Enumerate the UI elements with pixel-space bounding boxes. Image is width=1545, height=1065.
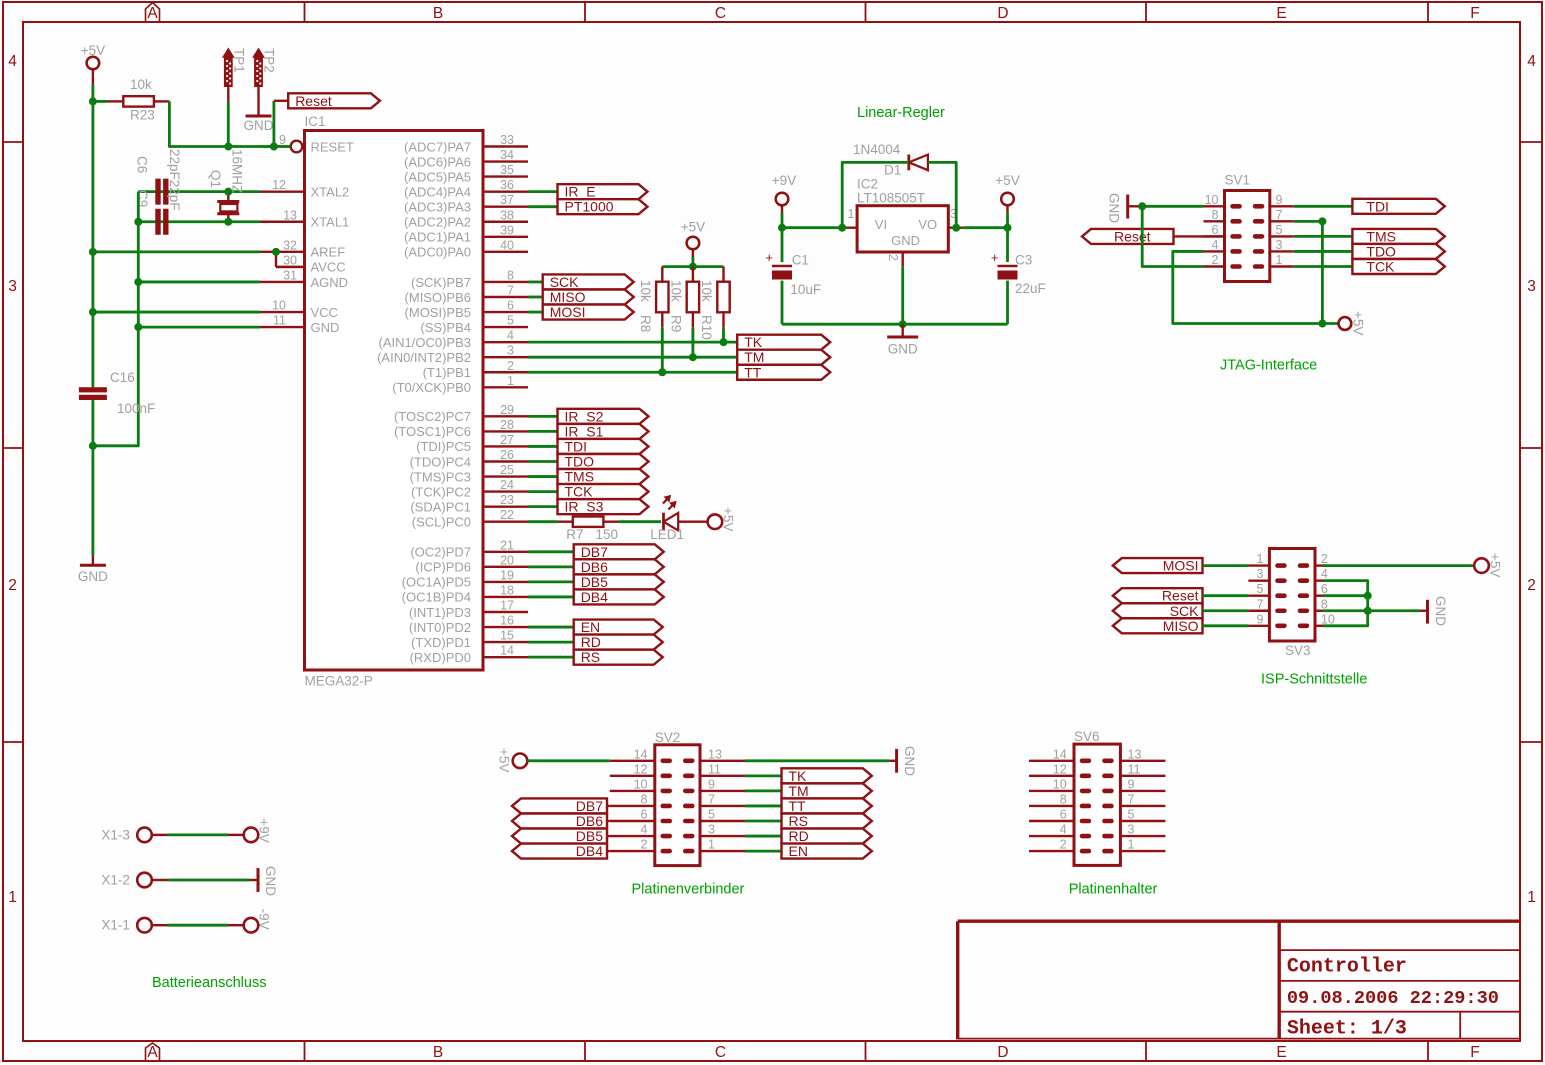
svg-text:18: 18 <box>500 583 514 597</box>
svg-text:1: 1 <box>1276 253 1283 267</box>
node TDI flag <box>1352 198 1444 214</box>
svg-text:B: B <box>433 5 443 22</box>
wire R7 to LED1 <box>619 520 661 523</box>
svg-text:D: D <box>997 1044 1008 1061</box>
svg-text:(INT0)PD2: (INT0)PD2 <box>409 620 471 635</box>
svg-text:11: 11 <box>708 762 721 776</box>
svg-text:4: 4 <box>1212 238 1219 252</box>
power +9V supply <box>772 173 796 213</box>
section label Batterieanschluss <box>152 975 266 991</box>
svg-text:2: 2 <box>507 359 514 373</box>
svg-text:DB7: DB7 <box>576 798 603 814</box>
svg-text:10: 10 <box>1053 777 1067 791</box>
junction TM/R9 <box>689 353 697 361</box>
crystal Q1 16MHz <box>208 149 245 222</box>
svg-text:EN: EN <box>789 843 808 859</box>
svg-text:22uF: 22uF <box>1015 281 1046 296</box>
svg-text:GND: GND <box>244 118 274 133</box>
svg-text:LT108505T: LT108505T <box>857 191 925 206</box>
svg-text:4: 4 <box>8 53 17 70</box>
svg-text:DB4: DB4 <box>576 843 603 859</box>
IC1 pin 27 (TDI)PC5 <box>416 433 528 454</box>
wire SV2 to RS <box>745 820 782 823</box>
svg-text:3: 3 <box>708 823 715 837</box>
junction +5V/R23 <box>89 97 97 105</box>
wire pin 14 to net RS <box>528 656 574 659</box>
wire pin 19 to net DB5 <box>528 580 574 583</box>
wire pin 24 to net TCK <box>528 490 558 493</box>
svg-text:11: 11 <box>1128 762 1141 776</box>
wire SV2 pin13 to gnd <box>745 759 889 762</box>
svg-text:RESET: RESET <box>311 139 354 154</box>
IC1 pin 24 (TCK)PC2 <box>411 478 528 499</box>
svg-text:XTAL2: XTAL2 <box>311 184 350 199</box>
svg-text:GND: GND <box>78 569 108 584</box>
svg-text:ISP-Schnittstelle: ISP-Schnittstelle <box>1261 672 1367 688</box>
SV3 pin row 7/8 <box>1248 597 1328 613</box>
connector SV1 body <box>1225 173 1270 282</box>
wire pin7 to +5V <box>1294 221 1323 323</box>
SV2 pin row 14/13 <box>610 747 745 763</box>
junction Q1/XTAL1 <box>224 218 232 226</box>
svg-text:DB7: DB7 <box>581 544 608 560</box>
node MOSI flag (ISP) <box>1113 558 1203 574</box>
svg-text:3: 3 <box>1527 278 1536 295</box>
wire SV2 to TM <box>745 790 782 793</box>
svg-text:2: 2 <box>1527 577 1536 594</box>
IC1 pin 33 (ADC7)PA7 <box>404 133 528 154</box>
svg-text:9: 9 <box>1128 777 1135 791</box>
svg-text:IR_S1: IR_S1 <box>565 423 604 439</box>
wire LED1 to +5V <box>678 520 707 522</box>
svg-text:2: 2 <box>8 577 17 594</box>
IC1 pin 1 (T0/XCK)PB0 <box>392 374 528 395</box>
svg-text:34: 34 <box>500 148 514 162</box>
svg-text:10k: 10k <box>699 280 714 302</box>
node PT1000 flag <box>558 199 648 215</box>
svg-text:3: 3 <box>8 278 17 295</box>
svg-text:R10: R10 <box>699 315 714 340</box>
svg-text:5: 5 <box>1276 223 1283 237</box>
svg-text:TM: TM <box>789 783 809 799</box>
svg-text:MEGA32-P: MEGA32-P <box>305 674 373 689</box>
IC2 pin VI <box>842 226 857 228</box>
svg-text:JTAG-Interface: JTAG-Interface <box>1220 358 1317 374</box>
IC1 pin 26 (TDO)PC4 <box>410 448 528 469</box>
svg-text:GND: GND <box>888 342 918 357</box>
connector SV6 body <box>1074 729 1120 865</box>
wire to +5V pad <box>1322 322 1338 325</box>
svg-text:TMS: TMS <box>1366 228 1396 244</box>
junction C16 gnd <box>89 442 97 450</box>
svg-text:6: 6 <box>1212 223 1219 237</box>
capacitor C6 22pF <box>135 156 169 205</box>
svg-text:+5V: +5V <box>81 43 105 58</box>
svg-text:C3: C3 <box>1015 252 1032 267</box>
svg-text:+: + <box>991 250 999 265</box>
svg-text:150: 150 <box>596 527 619 542</box>
connector pad X1-2 <box>101 873 151 888</box>
svg-text:B: B <box>433 1044 443 1061</box>
junction D1/VI <box>838 224 846 232</box>
svg-text:40: 40 <box>500 238 514 252</box>
svg-text:20: 20 <box>500 553 514 567</box>
svg-text:(TOSC1)PC6: (TOSC1)PC6 <box>394 424 471 439</box>
svg-text:D: D <box>997 5 1008 22</box>
svg-text:R23: R23 <box>130 108 155 123</box>
IC1 pin 29 (TOSC2)PC7 <box>394 403 528 424</box>
node DB6 flag (SV2) <box>512 813 607 829</box>
svg-text:(AIN0/INT2)PB2: (AIN0/INT2)PB2 <box>377 350 471 365</box>
wire VCC net <box>93 311 260 314</box>
svg-text:(ADC0)PA0: (ADC0)PA0 <box>404 245 471 260</box>
wire X1-1 to -9V <box>152 924 244 926</box>
wire C3 top <box>1006 228 1009 262</box>
wire GND11 net <box>138 326 260 329</box>
svg-text:DB6: DB6 <box>576 813 603 829</box>
svg-text:6: 6 <box>507 299 514 313</box>
SV1 pin row 6/5 <box>1204 223 1294 239</box>
IC1 pin 28 (TOSC1)PC6 <box>394 418 528 439</box>
svg-text:EN: EN <box>581 619 600 635</box>
svg-text:(ADC1)PA1: (ADC1)PA1 <box>404 230 471 245</box>
test point TP1 <box>223 48 246 87</box>
junction AVCC/AREF <box>272 248 280 256</box>
svg-text:5: 5 <box>708 808 715 822</box>
svg-text:E: E <box>1276 1044 1286 1061</box>
IC1 pin 13 XTAL1 <box>260 208 349 229</box>
section label ISP-Schnittstelle <box>1261 672 1367 688</box>
wire AGND net <box>138 281 260 284</box>
wire DB7 to SV2 <box>607 805 610 807</box>
svg-text:30: 30 <box>283 253 297 267</box>
svg-text:17: 17 <box>500 598 514 612</box>
svg-text:TK: TK <box>744 334 763 350</box>
SV1 pin row 2/1 <box>1204 253 1294 269</box>
IC1 pin 22 (SCL)PC0 <box>412 508 528 529</box>
node TM flag <box>737 349 830 365</box>
svg-text:21: 21 <box>500 538 514 552</box>
svg-text:C: C <box>715 5 726 22</box>
wire pin 28 to net IR_S1 <box>528 430 558 433</box>
svg-text:MISO: MISO <box>1163 618 1199 634</box>
svg-text:+5V: +5V <box>721 507 736 531</box>
svg-text:1: 1 <box>1128 838 1135 852</box>
svg-text:2: 2 <box>1060 838 1067 852</box>
svg-text:SV1: SV1 <box>1225 173 1251 188</box>
svg-text:(TXD)PD1: (TXD)PD1 <box>411 635 471 650</box>
svg-text:TCK: TCK <box>1366 259 1395 275</box>
IC1 pin 9 RESET <box>260 133 354 154</box>
connector SV3 body <box>1269 549 1315 659</box>
wire XTAL1 net <box>138 220 260 223</box>
op-amp IC1 MEGA32-P body <box>305 114 484 689</box>
svg-text:23: 23 <box>500 493 514 507</box>
ground (regulator) <box>887 324 918 356</box>
junction +5V/AREF <box>89 248 97 256</box>
connector pad X1-3 <box>101 827 151 842</box>
svg-text:7: 7 <box>1128 792 1135 806</box>
wire pin 26 to net TDO <box>528 460 558 463</box>
node DB4 flag (SV2) <box>512 843 607 859</box>
svg-text:10: 10 <box>272 299 286 313</box>
power +5V pad (ISP) <box>1474 553 1502 577</box>
svg-text:IR_S2: IR_S2 <box>565 408 604 424</box>
svg-text:7: 7 <box>1276 208 1283 222</box>
svg-text:XTAL1: XTAL1 <box>311 215 350 230</box>
svg-text:1: 1 <box>708 838 715 852</box>
svg-text:X1-3: X1-3 <box>101 827 130 842</box>
svg-text:RS: RS <box>581 649 600 665</box>
SV3 pin row 5/6 <box>1248 582 1328 598</box>
SV3 pin row 3/4 <box>1248 567 1328 583</box>
svg-text:3: 3 <box>1257 567 1264 581</box>
wire pin 23 to net IR_S3 <box>528 505 558 508</box>
IC1 pin 30 AVCC <box>276 253 346 274</box>
SV2 pin row 4/3 <box>610 823 745 839</box>
wire pin 29 to net IR_S2 <box>528 415 558 418</box>
IC1 pin 35 (ADC5)PA5 <box>404 163 528 184</box>
svg-text:4: 4 <box>1527 53 1536 70</box>
svg-text:(INT1)PD3: (INT1)PD3 <box>409 605 471 620</box>
svg-text:2: 2 <box>1321 552 1328 566</box>
svg-text:TDI: TDI <box>565 438 588 454</box>
svg-text:GND: GND <box>1433 596 1448 626</box>
svg-text:A: A <box>147 5 158 22</box>
wire gnd to SV1 pin10 <box>1141 205 1204 208</box>
svg-text:10k: 10k <box>130 77 152 92</box>
wire +5V pullup rail <box>662 257 723 267</box>
wire pin 22 to R7 <box>528 520 558 523</box>
svg-text:4: 4 <box>1060 823 1067 837</box>
svg-text:1: 1 <box>507 374 514 388</box>
power +5V pad (LED) <box>708 507 736 531</box>
SV3 pin row 1/2 <box>1248 552 1328 568</box>
section label Platinenhalter <box>1069 882 1158 898</box>
wire C3 to gnd rail <box>1006 281 1009 325</box>
svg-text:8: 8 <box>507 268 514 282</box>
node Reset flag (JTAG) <box>1082 228 1174 244</box>
svg-text:IC1: IC1 <box>305 114 326 129</box>
node TDO flag <box>558 453 649 469</box>
wire pin 27 to net TDI <box>528 445 558 448</box>
svg-text:RD: RD <box>789 828 809 844</box>
node SCK flag <box>543 274 634 290</box>
svg-text:+5V: +5V <box>1351 311 1366 335</box>
junction pin7 drop <box>1318 217 1326 225</box>
wire reset drop to pin2 <box>1142 206 1203 266</box>
svg-text:TM: TM <box>744 349 764 365</box>
SV1 pin row 10/9 <box>1204 193 1294 209</box>
svg-text:(ADC5)PA5: (ADC5)PA5 <box>404 169 471 184</box>
node TT flag (SV2) <box>782 798 872 814</box>
SV6 pin row 12/11 <box>1029 762 1165 778</box>
svg-text:28: 28 <box>500 418 514 432</box>
wire pin8 to chain and gnd <box>1323 609 1420 612</box>
IC1 pin 12 XTAL2 <box>260 178 349 199</box>
IC1 pin 31 AGND <box>260 268 348 289</box>
SV3 pin row 9/10 <box>1248 612 1334 628</box>
wire DB6 to SV2 <box>607 820 610 822</box>
wire VO to +5V <box>963 226 1007 229</box>
ground (TP2) <box>244 116 274 133</box>
node Reset flag (ISP) <box>1113 588 1203 604</box>
svg-text:C6: C6 <box>135 156 150 173</box>
svg-text:(SCK)PB7: (SCK)PB7 <box>411 275 471 290</box>
svg-text:MOSI: MOSI <box>550 304 586 320</box>
junction resetflag/reset net <box>270 143 278 151</box>
svg-text:4: 4 <box>641 823 648 837</box>
svg-text:Q1: Q1 <box>208 170 223 188</box>
svg-text:+: + <box>765 250 773 265</box>
IC1 pin 32 AREF <box>260 238 345 259</box>
svg-text:GND: GND <box>263 866 278 896</box>
svg-text:TT: TT <box>744 364 762 380</box>
svg-text:C16: C16 <box>110 370 135 385</box>
svg-text:1N4004: 1N4004 <box>853 142 901 157</box>
wire pin 21 to net DB7 <box>528 550 574 553</box>
diode D1 1N4004 <box>853 142 928 178</box>
wire D1 to VO <box>928 162 956 227</box>
svg-text:37: 37 <box>500 193 514 207</box>
svg-text:+9V: +9V <box>772 173 796 188</box>
svg-text:TDO: TDO <box>1366 243 1396 259</box>
svg-text:(TOSC2)PC7: (TOSC2)PC7 <box>394 409 471 424</box>
svg-text:SV2: SV2 <box>655 730 681 745</box>
svg-text:TP1: TP1 <box>231 48 246 73</box>
wire Reset flag to reset net <box>274 101 288 147</box>
svg-text:SCK: SCK <box>1170 603 1199 619</box>
ground (battery) <box>258 866 278 896</box>
node DB7 flag <box>574 544 664 560</box>
node TCK flag <box>558 484 649 500</box>
power +5V pad (JTAG) <box>1339 311 1366 335</box>
IC1 pin 16 (INT0)PD2 <box>409 614 528 635</box>
wire SCK to pin7 <box>1203 609 1249 612</box>
junction Q1/XTAL2 <box>224 188 232 196</box>
svg-text:VI: VI <box>875 217 887 232</box>
IC1 pin 2 (T1)PB1 <box>423 359 528 380</box>
SV6 pin row 6/5 <box>1029 808 1165 824</box>
svg-text:16MHZ: 16MHZ <box>230 149 245 193</box>
connector SV2 body <box>655 730 700 866</box>
IC1 pin 23 (SDA)PC1 <box>410 493 528 514</box>
svg-text:32: 32 <box>283 238 297 252</box>
node RD flag (SV2) <box>782 828 872 844</box>
svg-text:7: 7 <box>1257 597 1264 611</box>
resistor R8 10k <box>638 267 669 373</box>
IC1 pin 19 (OC1A)PD5 <box>402 568 528 589</box>
svg-text:+5V: +5V <box>497 748 512 772</box>
node TT flag <box>737 364 830 380</box>
node EN flag (SV2) <box>782 843 872 859</box>
wire pin 36 to net IR_E <box>528 190 558 193</box>
svg-text:38: 38 <box>500 208 514 222</box>
svg-text:39: 39 <box>500 223 514 237</box>
resistor R7 150 <box>558 516 619 541</box>
node TMS flag <box>558 469 649 485</box>
IC1 pin 37 (ADC3)PA3 <box>404 193 528 214</box>
IC1 pin 6 (MOSI)PB5 <box>405 299 528 320</box>
wire pin 37 to net PT1000 <box>528 205 558 208</box>
wire DB4 to SV2 <box>607 850 610 852</box>
svg-text:TT: TT <box>789 798 807 814</box>
svg-text:DB6: DB6 <box>581 559 608 575</box>
resistor R23 10k <box>108 77 169 123</box>
power +9V pad (battery) <box>244 818 272 842</box>
node TDI flag <box>558 438 649 454</box>
svg-text:(SCL)PC0: (SCL)PC0 <box>412 514 471 529</box>
node SCK flag (ISP) <box>1113 603 1203 619</box>
junction pin6 chain <box>1364 592 1372 600</box>
power +5V supply (top left) <box>81 43 105 84</box>
svg-text:+5V: +5V <box>681 220 705 235</box>
svg-text:12: 12 <box>1053 762 1067 776</box>
IC1 pin 17 (INT1)PD3 <box>409 598 528 619</box>
resistor R9 10k <box>669 267 700 358</box>
power -9V pad (battery) <box>244 909 272 933</box>
capacitor C16 100nF <box>79 370 155 416</box>
IC1 pin 21 (OC2)PD7 <box>410 538 528 559</box>
node TMS flag <box>1352 228 1444 244</box>
wire pin2 to +5V pad <box>1323 564 1474 567</box>
svg-text:13: 13 <box>283 208 297 222</box>
svg-text:IR_S3: IR_S3 <box>565 499 604 515</box>
svg-text:4: 4 <box>507 329 514 343</box>
wire MOSI to pin1 <box>1203 564 1249 567</box>
node RS flag (SV2) <box>782 813 872 829</box>
svg-text:(MISO)PB6: (MISO)PB6 <box>405 290 471 305</box>
svg-text:R8: R8 <box>638 315 653 332</box>
section label JTAG-Interface <box>1220 358 1317 374</box>
ground (ISP) <box>1420 596 1448 626</box>
svg-text:(ADC2)PA2: (ADC2)PA2 <box>404 215 471 230</box>
SV2 pin row 2/1 <box>610 838 745 854</box>
node Reset flag (top) <box>288 93 380 109</box>
svg-text:R9: R9 <box>669 315 684 332</box>
svg-text:AGND: AGND <box>311 275 349 290</box>
svg-text:(ADC4)PA4: (ADC4)PA4 <box>404 184 471 199</box>
IC1 pin 39 (ADC1)PA1 <box>404 223 528 244</box>
wire +5V down to R23 node <box>92 84 95 101</box>
node EN flag <box>574 619 663 635</box>
IC1 pin 34 (ADC6)PA6 <box>404 148 528 169</box>
junction +5V/VCC <box>89 308 97 316</box>
svg-text:14: 14 <box>500 644 514 658</box>
svg-text:22pF22pF: 22pF22pF <box>167 149 182 211</box>
wire DB5 to SV2 <box>607 835 610 837</box>
svg-text:DB5: DB5 <box>581 574 608 590</box>
svg-text:LED1: LED1 <box>650 527 684 542</box>
junction +5V rail <box>689 263 697 271</box>
regulator IC2 LT108505T <box>848 177 957 262</box>
wire +5V to SV2 pin14 <box>527 759 610 762</box>
svg-text:R7: R7 <box>566 527 583 542</box>
SV2 pin row 12/11 <box>610 762 745 778</box>
power +5V supply (pullups) <box>681 220 705 258</box>
wire pin4 to +5V <box>1173 251 1323 323</box>
svg-text:(MOSI)PB5: (MOSI)PB5 <box>405 305 471 320</box>
node DB4 flag <box>574 589 664 605</box>
svg-text:10k: 10k <box>638 280 653 302</box>
svg-text:Controller: Controller <box>1287 956 1407 979</box>
node DB5 flag (SV2) <box>512 828 607 844</box>
SV1 pin row 4/3 <box>1204 238 1294 254</box>
svg-text:9: 9 <box>708 777 715 791</box>
svg-text:6: 6 <box>1321 582 1328 596</box>
SV6 pin row 8/7 <box>1029 792 1165 808</box>
wire C16 to gnd corner <box>92 400 95 556</box>
